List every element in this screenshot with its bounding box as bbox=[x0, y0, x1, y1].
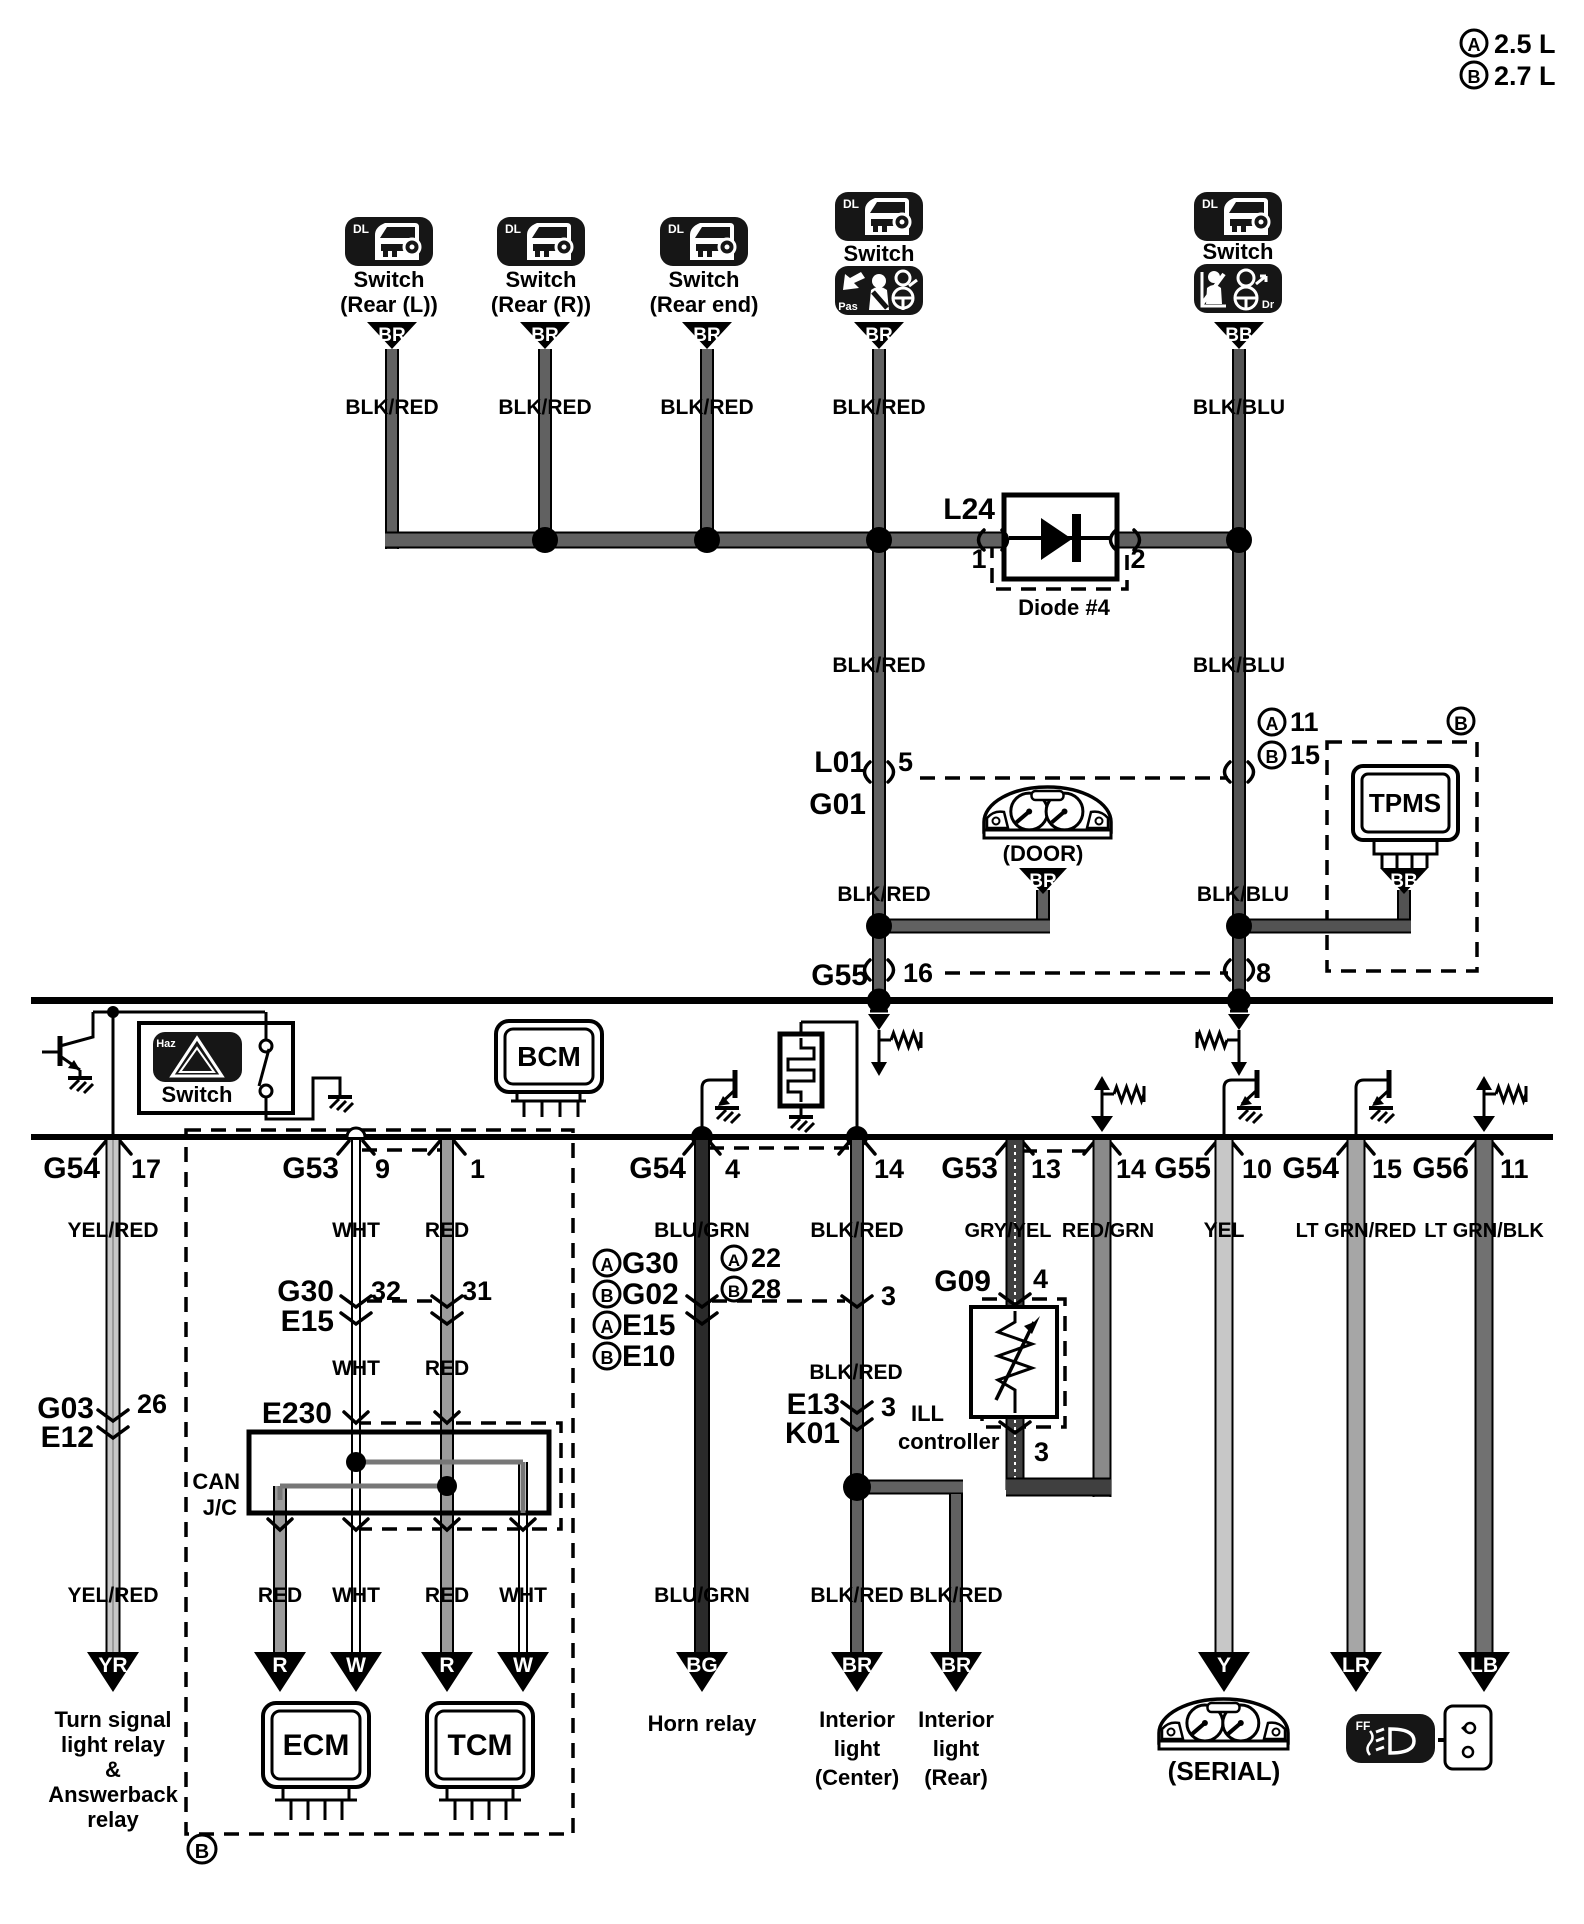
svg-text:YEL: YEL bbox=[1204, 1219, 1245, 1242]
svg-text:(Rear end): (Rear end) bbox=[650, 292, 759, 317]
svg-text:Y: Y bbox=[1217, 1654, 1231, 1677]
svg-text:Switch: Switch bbox=[506, 267, 577, 292]
svg-text:Horn relay: Horn relay bbox=[648, 1711, 758, 1736]
svg-text:BR: BR bbox=[531, 325, 559, 346]
svg-text:J/C: J/C bbox=[203, 1495, 237, 1520]
svg-text:BLK/BLU: BLK/BLU bbox=[1193, 396, 1285, 419]
svg-text:Haz: Haz bbox=[156, 1038, 176, 1050]
svg-text:(SERIAL): (SERIAL) bbox=[1168, 1756, 1281, 1786]
svg-text:R: R bbox=[439, 1654, 454, 1677]
svg-text:G55: G55 bbox=[811, 959, 868, 992]
svg-text:13: 13 bbox=[1031, 1154, 1061, 1184]
svg-text:A: A bbox=[728, 1251, 740, 1270]
svg-text:G54: G54 bbox=[1282, 1152, 1339, 1185]
svg-text:(Rear (L)): (Rear (L)) bbox=[340, 292, 438, 317]
svg-text:Switch: Switch bbox=[162, 1082, 233, 1107]
svg-text:B: B bbox=[1266, 747, 1279, 767]
svg-text:A: A bbox=[1468, 35, 1481, 55]
svg-text:1: 1 bbox=[971, 544, 986, 574]
svg-text:28: 28 bbox=[751, 1274, 781, 1304]
svg-text:Switch: Switch bbox=[1203, 239, 1274, 264]
svg-text:G53: G53 bbox=[282, 1152, 339, 1185]
svg-text:GRY/YEL: GRY/YEL bbox=[964, 1220, 1051, 1242]
svg-text:R: R bbox=[272, 1654, 287, 1677]
svg-text:BR: BR bbox=[378, 325, 406, 346]
svg-text:26: 26 bbox=[137, 1389, 167, 1419]
svg-text:11: 11 bbox=[1500, 1154, 1529, 1184]
svg-text:4: 4 bbox=[1033, 1264, 1048, 1294]
svg-text:BLU/GRN: BLU/GRN bbox=[654, 1219, 750, 1242]
svg-text:BR: BR bbox=[941, 1654, 971, 1677]
svg-text:B: B bbox=[195, 1841, 209, 1863]
svg-text:G09: G09 bbox=[934, 1265, 991, 1298]
svg-text:(Center): (Center) bbox=[815, 1765, 899, 1790]
svg-text:Pas: Pas bbox=[838, 301, 858, 313]
svg-text:E12: E12 bbox=[41, 1421, 94, 1454]
svg-text:YR: YR bbox=[98, 1654, 127, 1677]
svg-text:YEL/RED: YEL/RED bbox=[67, 1584, 158, 1607]
svg-text:BLK/RED: BLK/RED bbox=[498, 396, 591, 419]
svg-text:BR: BR bbox=[693, 325, 721, 346]
svg-text:1: 1 bbox=[470, 1154, 485, 1184]
svg-text:light: light bbox=[933, 1736, 980, 1761]
svg-text:light relay: light relay bbox=[61, 1732, 166, 1757]
svg-text:A: A bbox=[601, 1317, 614, 1337]
svg-text:(DOOR): (DOOR) bbox=[1003, 841, 1084, 866]
svg-text:RED: RED bbox=[425, 1584, 469, 1607]
svg-text:G30: G30 bbox=[622, 1247, 679, 1280]
svg-text:light: light bbox=[834, 1736, 881, 1761]
svg-text:14: 14 bbox=[874, 1154, 904, 1184]
svg-text:G01: G01 bbox=[809, 788, 866, 821]
svg-text:BCM: BCM bbox=[517, 1041, 581, 1072]
svg-text:G56: G56 bbox=[1412, 1152, 1469, 1185]
svg-text:17: 17 bbox=[131, 1154, 161, 1184]
svg-text:controller: controller bbox=[898, 1429, 1000, 1454]
svg-text:Switch: Switch bbox=[354, 267, 425, 292]
svg-text:BLK/BLU: BLK/BLU bbox=[1197, 883, 1289, 906]
svg-text:G54: G54 bbox=[629, 1152, 686, 1185]
svg-text:TPMS: TPMS bbox=[1369, 788, 1441, 818]
svg-text:G02: G02 bbox=[622, 1278, 679, 1311]
svg-text:22: 22 bbox=[751, 1243, 781, 1273]
svg-text:RED: RED bbox=[258, 1584, 302, 1607]
svg-text:WHT: WHT bbox=[332, 1584, 380, 1607]
svg-text:BR: BR bbox=[842, 1654, 872, 1677]
svg-text:LB: LB bbox=[1470, 1654, 1498, 1677]
svg-text:2.5 L: 2.5 L bbox=[1494, 29, 1556, 59]
svg-text:BLK/RED: BLK/RED bbox=[809, 1361, 902, 1384]
svg-text:W: W bbox=[513, 1654, 533, 1677]
svg-text:BLU/GRN: BLU/GRN bbox=[654, 1584, 750, 1607]
svg-text:Switch: Switch bbox=[669, 267, 740, 292]
svg-text:E10: E10 bbox=[622, 1340, 675, 1373]
svg-text:BLK/RED: BLK/RED bbox=[810, 1584, 903, 1607]
svg-text:&: & bbox=[105, 1757, 121, 1782]
svg-text:A: A bbox=[1266, 714, 1279, 734]
svg-text:2.7 L: 2.7 L bbox=[1494, 61, 1556, 91]
svg-text:relay: relay bbox=[87, 1807, 139, 1832]
svg-text:BLK/RED: BLK/RED bbox=[909, 1584, 1002, 1607]
svg-text:9: 9 bbox=[375, 1154, 390, 1184]
svg-text:4: 4 bbox=[725, 1154, 740, 1184]
svg-text:Diode #4: Diode #4 bbox=[1018, 595, 1110, 620]
svg-text:BR: BR bbox=[865, 325, 893, 346]
svg-text:E15: E15 bbox=[281, 1305, 334, 1338]
svg-text:E230: E230 bbox=[262, 1397, 332, 1430]
svg-text:A: A bbox=[601, 1255, 614, 1275]
svg-text:L01: L01 bbox=[814, 746, 866, 779]
svg-text:BR: BR bbox=[1029, 871, 1057, 892]
svg-text:G55: G55 bbox=[1154, 1152, 1211, 1185]
svg-text:B: B bbox=[601, 1286, 614, 1306]
svg-text:LR: LR bbox=[1342, 1654, 1370, 1677]
svg-text:Dr: Dr bbox=[1262, 299, 1275, 311]
svg-text:Answerback: Answerback bbox=[48, 1782, 178, 1807]
svg-text:2: 2 bbox=[1130, 544, 1145, 574]
svg-text:3: 3 bbox=[881, 1281, 896, 1311]
svg-text:WHT: WHT bbox=[332, 1357, 380, 1380]
svg-text:YEL/RED: YEL/RED bbox=[67, 1219, 158, 1242]
svg-text:Turn signal: Turn signal bbox=[55, 1707, 172, 1732]
svg-text:W: W bbox=[346, 1654, 366, 1677]
svg-text:B: B bbox=[1454, 714, 1468, 735]
svg-text:FF: FF bbox=[1356, 1719, 1371, 1733]
svg-text:DL: DL bbox=[843, 197, 859, 211]
svg-text:16: 16 bbox=[903, 958, 933, 988]
svg-text:RED: RED bbox=[425, 1357, 469, 1380]
svg-text:(Rear): (Rear) bbox=[924, 1765, 988, 1790]
svg-text:8: 8 bbox=[1256, 958, 1271, 988]
svg-text:DL: DL bbox=[668, 222, 684, 236]
svg-text:WHT: WHT bbox=[332, 1219, 380, 1242]
svg-text:DL: DL bbox=[505, 222, 521, 236]
svg-text:DL: DL bbox=[1202, 197, 1218, 211]
svg-text:BLK/RED: BLK/RED bbox=[345, 396, 438, 419]
svg-text:11: 11 bbox=[1290, 707, 1319, 737]
svg-text:3: 3 bbox=[881, 1392, 896, 1422]
svg-text:G53: G53 bbox=[941, 1152, 998, 1185]
svg-text:BLK/RED: BLK/RED bbox=[837, 883, 930, 906]
svg-text:31: 31 bbox=[462, 1276, 492, 1306]
svg-text:TCM: TCM bbox=[448, 1729, 513, 1762]
svg-text:(Rear (R)): (Rear (R)) bbox=[491, 292, 591, 317]
svg-text:CAN: CAN bbox=[192, 1469, 240, 1494]
svg-text:E15: E15 bbox=[622, 1309, 675, 1342]
svg-text:DL: DL bbox=[353, 222, 369, 236]
svg-text:15: 15 bbox=[1372, 1154, 1402, 1184]
svg-text:Switch: Switch bbox=[844, 241, 915, 266]
svg-text:ILL: ILL bbox=[911, 1401, 944, 1426]
svg-text:3: 3 bbox=[1034, 1437, 1049, 1467]
svg-text:BLK/RED: BLK/RED bbox=[660, 396, 753, 419]
svg-text:BB: BB bbox=[1390, 871, 1417, 892]
svg-text:B: B bbox=[1468, 67, 1481, 87]
svg-text:WHT: WHT bbox=[499, 1584, 547, 1607]
svg-text:BLK/RED: BLK/RED bbox=[832, 396, 925, 419]
svg-text:G54: G54 bbox=[43, 1152, 100, 1185]
svg-text:RED: RED bbox=[425, 1219, 469, 1242]
svg-text:5: 5 bbox=[898, 747, 913, 777]
svg-text:L24: L24 bbox=[943, 493, 995, 526]
svg-text:LT GRN/BLK: LT GRN/BLK bbox=[1424, 1220, 1544, 1242]
svg-text:RED/GRN: RED/GRN bbox=[1062, 1220, 1154, 1242]
svg-text:Interior: Interior bbox=[918, 1707, 994, 1732]
svg-text:B: B bbox=[728, 1282, 740, 1301]
svg-text:K01: K01 bbox=[785, 1417, 840, 1450]
svg-text:ECM: ECM bbox=[283, 1729, 350, 1762]
svg-text:BLK/RED: BLK/RED bbox=[810, 1219, 903, 1242]
svg-text:BB: BB bbox=[1225, 325, 1252, 346]
svg-text:BLK/RED: BLK/RED bbox=[832, 654, 925, 677]
svg-text:BLK/BLU: BLK/BLU bbox=[1193, 654, 1285, 677]
svg-text:Interior: Interior bbox=[819, 1707, 895, 1732]
svg-text:10: 10 bbox=[1242, 1154, 1272, 1184]
svg-text:15: 15 bbox=[1290, 740, 1320, 770]
svg-text:BG: BG bbox=[686, 1654, 718, 1677]
svg-text:14: 14 bbox=[1116, 1154, 1146, 1184]
svg-text:B: B bbox=[601, 1348, 614, 1368]
svg-text:LT GRN/RED: LT GRN/RED bbox=[1296, 1220, 1417, 1242]
svg-text:32: 32 bbox=[371, 1276, 401, 1306]
svg-text:G30: G30 bbox=[277, 1275, 334, 1308]
